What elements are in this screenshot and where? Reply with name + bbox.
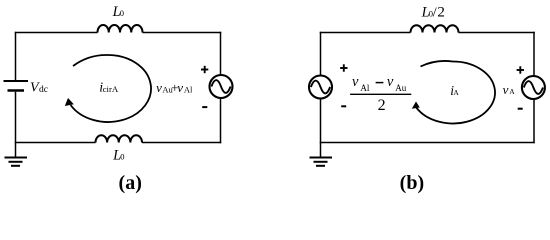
label vA [503,82,516,97]
wire right upper segment (a) [220,32,222,75]
wire left lower segment (b) [320,99,322,143]
wire left upper segment (a) [15,32,17,80]
plus sign right source (b) [517,66,524,73]
label Vdc [30,81,48,96]
ground stem (a) [15,143,17,157]
AC source circle (a) [210,75,233,98]
wire bottom-right segment (a) [142,142,221,144]
svg-text:Au: Au [395,83,406,93]
svg-text:(b): (b) [400,172,424,194]
AC source sine left (b) [311,81,330,94]
minus sign source (a) [202,106,207,108]
AC source sine right (b) [524,81,543,94]
label L0/2 [421,4,445,20]
minus sign left source (b) [341,105,346,107]
wire right lower segment (b) [533,99,535,143]
battery Vdc long plate [4,80,29,82]
ground (b) [310,158,333,166]
svg-text:0: 0 [120,8,124,18]
plus sign left source (b) [340,64,347,71]
svg-text:2: 2 [378,97,386,114]
fraction bar [350,93,411,95]
svg-text:A: A [509,87,515,96]
fraction numerator vAl - vAu [352,74,407,93]
ground (a) [5,158,28,166]
wire right upper segment (b) [533,32,535,76]
svg-text:Al: Al [184,84,193,94]
circulating current arrow arc (a) [71,55,151,122]
wire top-right segment (b) [459,32,535,34]
svg-text:v: v [352,74,359,90]
wire top-left segment (a) [15,32,98,34]
svg-text:(a): (a) [119,172,142,194]
svg-text:2: 2 [437,5,445,21]
svg-text:v: v [177,80,183,95]
ground stem (b) [320,143,322,157]
AC source circle right (b) [522,76,545,99]
svg-text:0: 0 [120,152,124,162]
arrowhead (b) [412,102,420,109]
arrowhead (a) [65,98,74,106]
label L0 top (a) [112,4,124,20]
svg-text:dc: dc [39,85,48,95]
wire top-right segment (a) [143,32,222,34]
AC source sine (a) [211,80,230,93]
wire left upper segment (b) [320,32,322,76]
minus sign right source (b) [518,108,523,110]
svg-text:/: / [433,6,437,21]
label icirA [99,81,119,96]
inductor L0 top (a) [97,25,142,33]
label L0 bottom (a) [112,148,124,164]
plus sign source (a) [201,66,208,73]
label iA [450,83,459,98]
svg-text:v: v [387,74,394,90]
AC source circle left (b) [309,76,332,99]
wire bottom-left segment (a) [15,142,96,144]
inductor L0/2 (b) [411,25,459,32]
wire left lower segment (a) [15,92,17,143]
svg-text:A: A [453,88,459,97]
wire bottom segment (b) [320,142,535,144]
circulating current arrow arc (b) [416,61,495,124]
svg-text:cirA: cirA [103,84,119,94]
wire top-left segment (b) [320,32,411,34]
label vAu+vAl [156,80,193,95]
svg-text:v: v [156,80,162,95]
svg-text:v: v [503,82,509,97]
inductor L0 bottom (a) [96,135,143,142]
svg-text:Al: Al [360,83,369,93]
wire right lower segment (a) [220,98,222,143]
battery Vdc short plate [8,89,25,92]
